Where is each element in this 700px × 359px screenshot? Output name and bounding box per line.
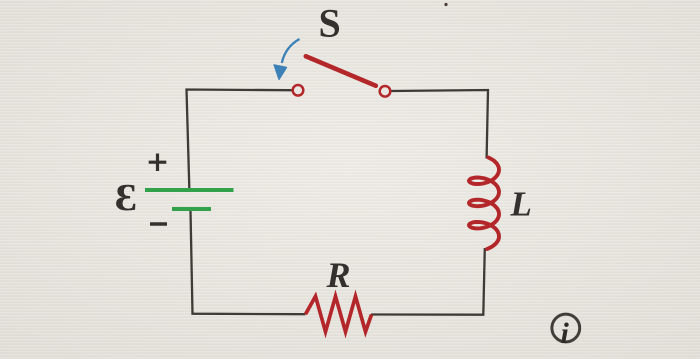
switch S blade [306, 56, 376, 86]
battery negative plate [172, 207, 211, 211]
wire top-left segment [187, 90, 292, 189]
switch terminal contact right [380, 86, 391, 97]
battery plus sign [149, 154, 167, 172]
svg-text:R: R [326, 255, 351, 295]
svg-text:L: L [510, 185, 532, 224]
inductor L coil [469, 158, 499, 250]
info icon circle [552, 314, 580, 342]
svg-text:3: 3 [115, 176, 137, 218]
svg-text:i: i [561, 317, 570, 350]
wire bottom-right segment [371, 248, 485, 315]
resistor R zigzag [306, 296, 372, 331]
battery positive plate [145, 188, 234, 192]
switch closing arrow (blue) [282, 39, 300, 63]
wire left-bottom segment [191, 211, 306, 315]
switch terminal contact left [293, 85, 304, 96]
battery minus sign [150, 222, 167, 225]
svg-text:S: S [319, 1, 341, 46]
wire top-right segment [392, 90, 489, 159]
